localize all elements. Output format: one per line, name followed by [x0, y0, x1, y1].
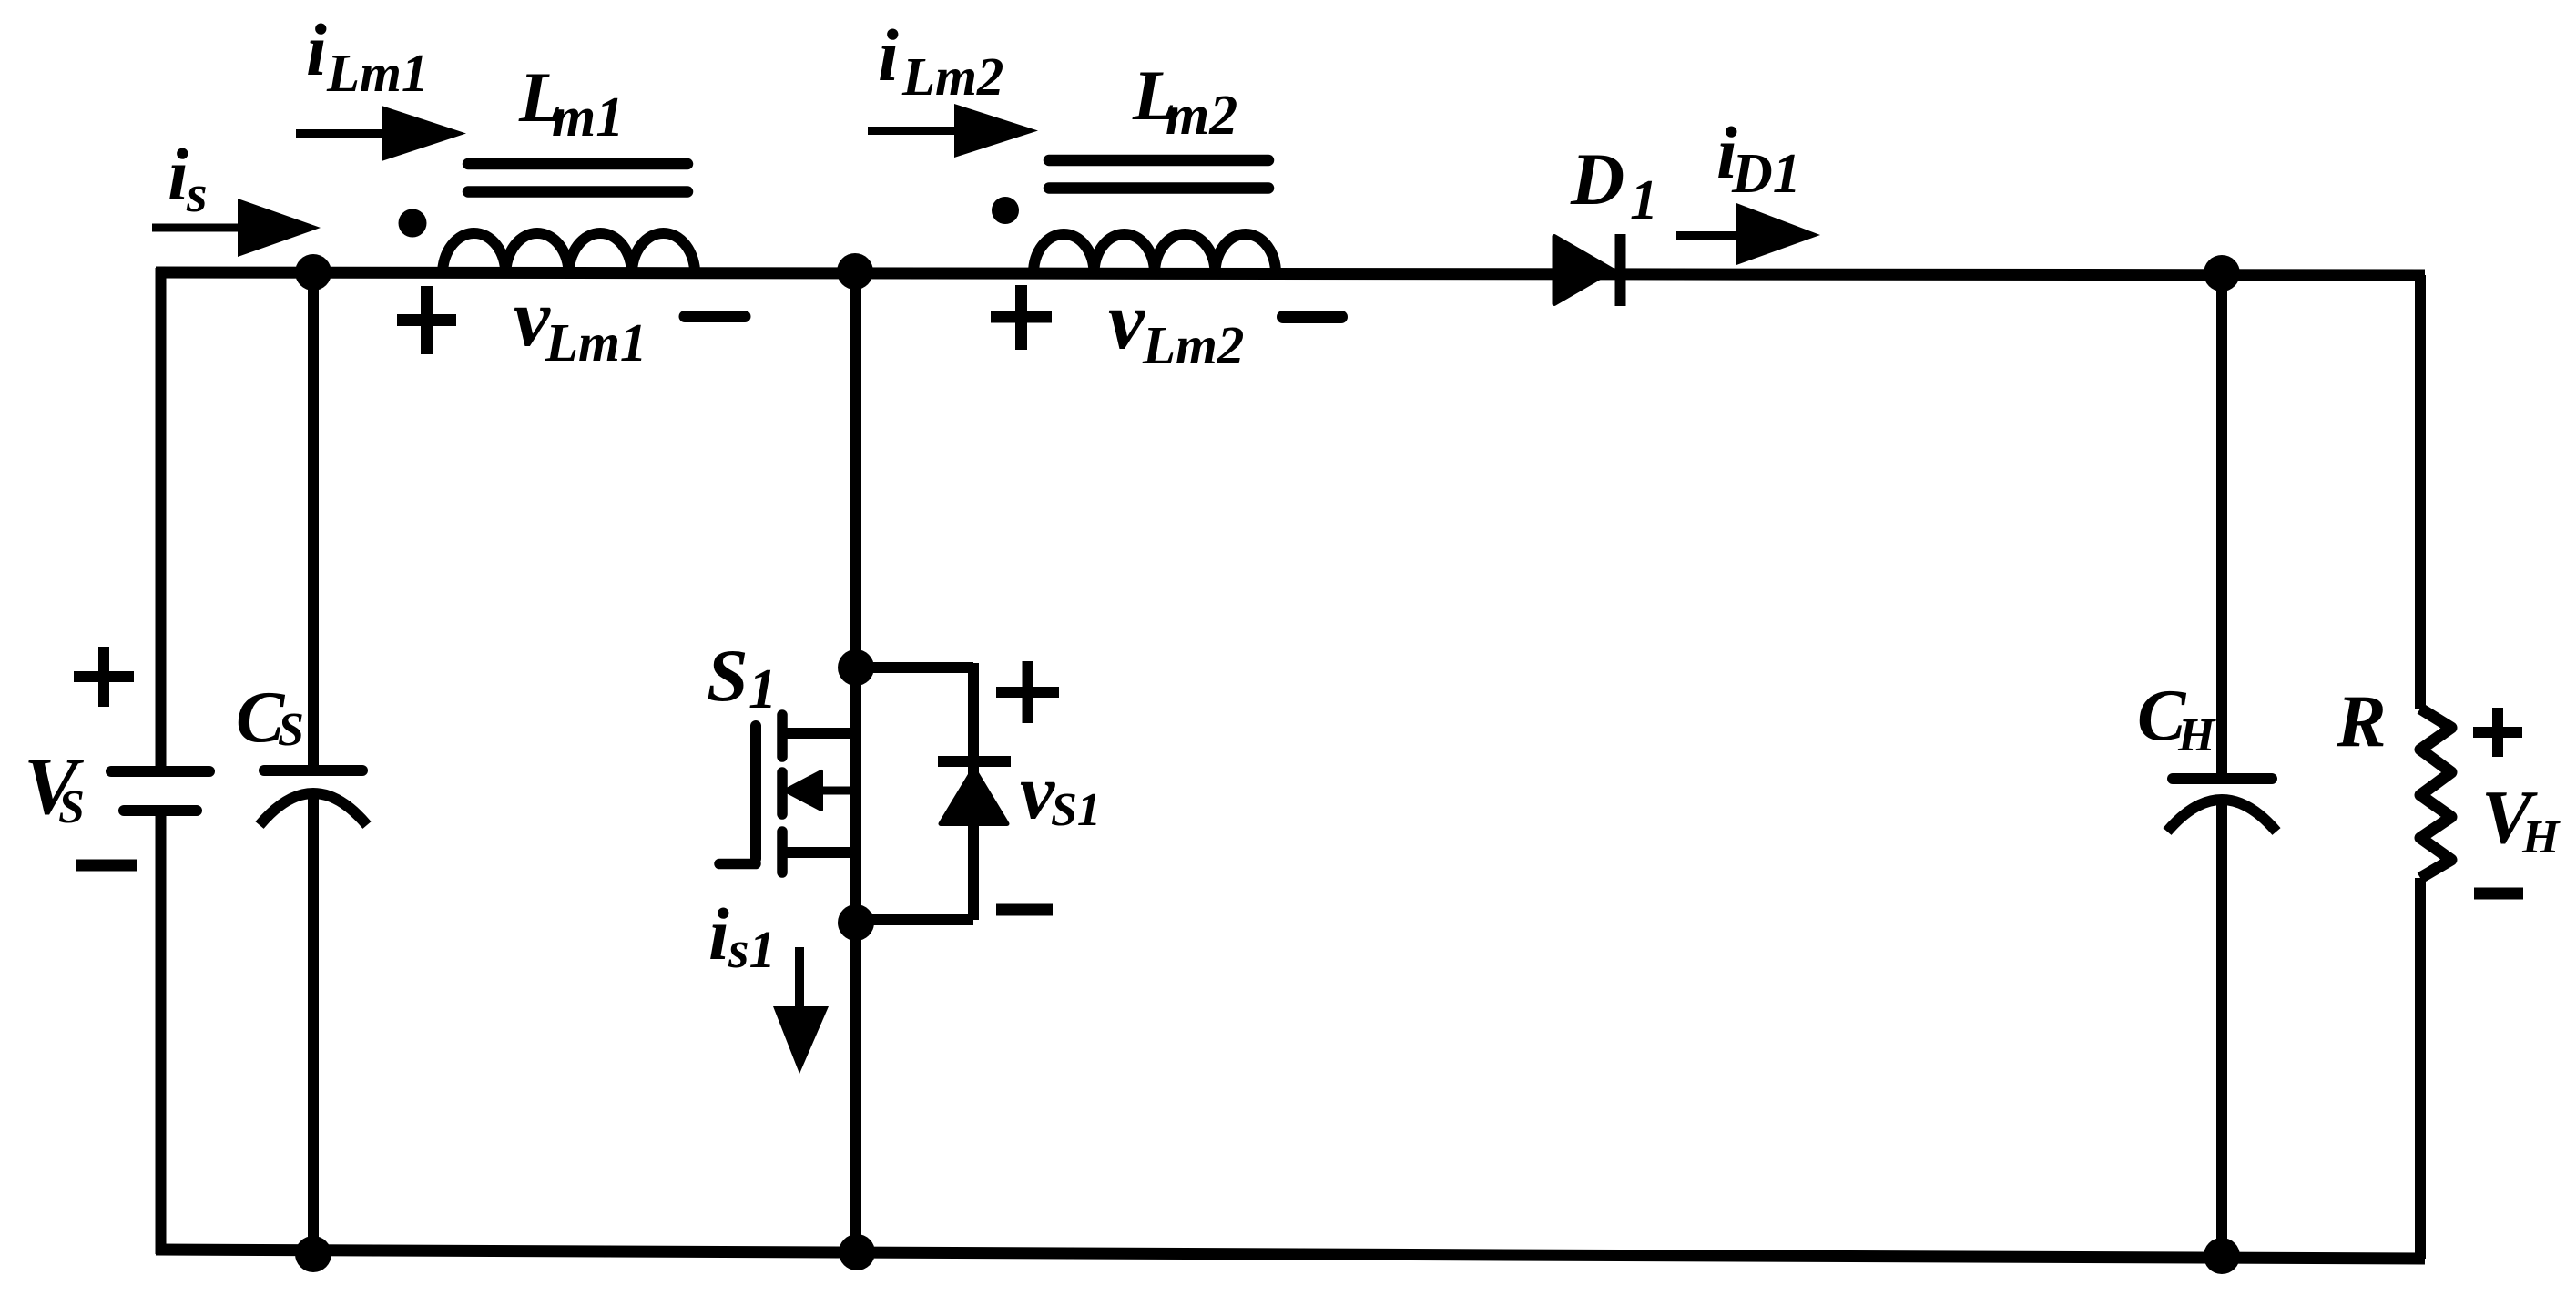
- wire Cs branch upper: [308, 272, 319, 766]
- wire Vs branch upper: [156, 268, 167, 767]
- battery VS long plate: [111, 766, 209, 777]
- inductor Lm1 coil: [443, 233, 695, 274]
- wire R branch upper: [2415, 275, 2426, 709]
- svg-text:S1: S1: [1051, 784, 1101, 836]
- phasing dot Lm2: [992, 197, 1019, 224]
- phasing dot Lm1: [399, 209, 427, 238]
- svg-text:Lm2: Lm2: [1142, 315, 1244, 375]
- minus sign of VH: [2474, 888, 2523, 900]
- junction node S1 top: [837, 253, 873, 290]
- inductor Lm2 core bar upper: [1049, 155, 1268, 167]
- capacitor CH top plate: [2173, 773, 2272, 784]
- junction node S1 drain: [838, 649, 874, 686]
- minus sign of vS1: [996, 904, 1053, 916]
- wire bottom bus: [156, 1250, 2425, 1259]
- arrow iD1 head: [1736, 203, 1820, 265]
- arrow is shaft: [152, 224, 244, 232]
- plus sign of vLm1: [397, 286, 456, 354]
- mosfet S1 source lead: [782, 847, 856, 858]
- svg-text:v: v: [1108, 276, 1145, 366]
- svg-text:D1: D1: [1731, 143, 1801, 205]
- svg-text:1: 1: [1630, 169, 1658, 231]
- arrow iLm2 head: [954, 104, 1038, 158]
- wire CH branch lower: [2216, 804, 2227, 1257]
- arrow iD1 shaft: [1676, 231, 1743, 240]
- mosfet S1 channel dash top: [777, 715, 788, 757]
- resistor R zigzag: [2420, 709, 2451, 878]
- inductor Lm1 core bar upper: [468, 158, 687, 170]
- inductor Lm2 core bar lower: [1049, 182, 1268, 194]
- body diode branch top wire: [856, 662, 973, 673]
- svg-text:D: D: [1570, 138, 1624, 220]
- plus sign of VH: [2473, 708, 2522, 757]
- body diode triangle: [941, 769, 1007, 824]
- capacitor CH curved plate: [2167, 800, 2276, 832]
- svg-text:Lm1: Lm1: [326, 43, 428, 103]
- mosfet S1 channel dash bottom: [777, 832, 788, 872]
- minus sign of VS: [76, 860, 137, 872]
- svg-text:H: H: [2177, 709, 2216, 761]
- svg-text:S: S: [58, 781, 85, 833]
- svg-text:i: i: [708, 893, 729, 975]
- svg-text:Lm2: Lm2: [901, 46, 1003, 107]
- arrow is head: [238, 199, 321, 257]
- junction node Cs bottom: [295, 1236, 331, 1272]
- mosfet S1 drain lead: [782, 728, 856, 739]
- junction node S1 bottom: [839, 1234, 875, 1270]
- body diode cathode bar: [938, 756, 1011, 767]
- diode D1 cathode bar: [1615, 234, 1626, 306]
- svg-text:1: 1: [748, 658, 777, 720]
- plus sign of VS: [74, 647, 134, 707]
- capacitor CS curved plate: [260, 793, 367, 825]
- mosfet S1 bulk arrow shaft: [816, 787, 856, 795]
- arrow is1 head: [773, 1006, 829, 1074]
- svg-text:R: R: [2336, 679, 2387, 762]
- mosfet S1 bulk arrow head: [785, 771, 821, 810]
- wire top bus: [156, 272, 2425, 275]
- wire CH branch upper: [2216, 273, 2227, 774]
- svg-text:S: S: [707, 634, 748, 717]
- junction node Cs top: [295, 254, 331, 291]
- svg-text:i: i: [306, 8, 327, 91]
- mosfet S1 channel dash middle: [777, 772, 788, 814]
- arrow iLm1 shaft: [296, 129, 388, 138]
- diode D1 triangle: [1554, 237, 1613, 304]
- arrow is1 shaft: [795, 947, 804, 1013]
- svg-text:i: i: [878, 14, 899, 97]
- body diode branch vertical wire: [968, 663, 979, 920]
- wire R branch lower: [2415, 878, 2426, 1259]
- inductor Lm1 core bar lower: [468, 186, 687, 198]
- svg-text:Lm1: Lm1: [545, 312, 647, 372]
- svg-text:m1: m1: [552, 87, 624, 148]
- minus sign of vLm1: [685, 311, 745, 322]
- svg-text:H: H: [2521, 811, 2561, 863]
- arrow iLm1 head: [382, 106, 466, 161]
- svg-text:S: S: [278, 704, 304, 756]
- arrow iLm2 shaft: [868, 127, 961, 135]
- junction node S1 source: [838, 904, 874, 941]
- junction node CH top: [2204, 255, 2240, 291]
- capacitor CS top plate: [264, 765, 362, 776]
- wire Cs branch lower: [308, 796, 319, 1254]
- body diode branch bottom wire: [856, 914, 973, 925]
- minus sign of vLm2: [1283, 311, 1341, 323]
- svg-text:i: i: [168, 133, 188, 216]
- svg-text:m2: m2: [1166, 85, 1237, 147]
- battery VS short plate: [124, 805, 197, 816]
- wire Vs branch lower: [156, 816, 167, 1254]
- mosfet S1 gate bar: [750, 726, 761, 859]
- plus sign of vLm2: [991, 285, 1052, 350]
- svg-text:s: s: [186, 164, 208, 223]
- inductor Lm2 coil: [1033, 234, 1276, 273]
- junction node CH bottom: [2204, 1238, 2240, 1274]
- svg-text:s1: s1: [728, 920, 776, 979]
- wire S1 branch: [850, 272, 861, 1253]
- mosfet S1 gate lead: [719, 859, 756, 870]
- plus sign of vS1: [996, 661, 1059, 723]
